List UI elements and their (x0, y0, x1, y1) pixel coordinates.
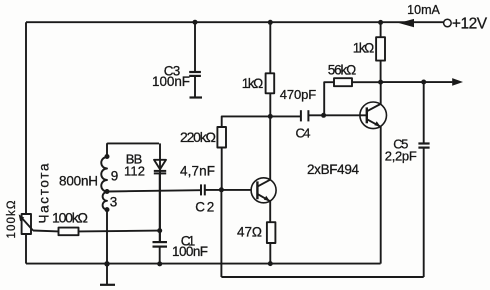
transistor Q2 BF494 (360, 102, 387, 129)
node coil tap (105, 189, 110, 194)
wire coil top to varicap (107, 143, 159, 156)
node output C5 (421, 80, 426, 85)
svg-text:C2: C2 (195, 200, 214, 215)
inductor 800nH tapped coil (101, 157, 107, 192)
resistor 1k left (Q1 collector load) (269, 22, 271, 73)
arrow output (452, 78, 463, 86)
node Q1 collector C4 (268, 114, 273, 119)
node Q1 base C2 220k feedback (219, 187, 224, 192)
svg-text:56kΩ: 56kΩ (328, 62, 357, 77)
wire C4 to Q2 base (308, 114, 366, 116)
svg-text:3: 3 (110, 195, 118, 210)
node 47R bottom (268, 261, 273, 266)
node varicap bias C1 (157, 228, 162, 233)
potentiometer 100k (Частота) body (22, 214, 31, 234)
node ground rail coil (104, 261, 109, 266)
node supply 1k right (378, 20, 383, 25)
wire +12V top supply rail (26, 21, 443, 23)
wire feedback drop from Q1 base node (220, 190, 222, 277)
svg-text:470pF: 470pF (280, 87, 317, 102)
resistor 47R (Q1 emitter) (267, 222, 276, 243)
svg-text:100nF: 100nF (172, 244, 208, 259)
svg-text:+12V: +12V (452, 16, 488, 33)
svg-text:100kΩ: 100kΩ (6, 200, 18, 238)
resistor 100k bias (59, 228, 79, 236)
svg-text:1kΩ: 1kΩ (242, 76, 264, 91)
ground (106, 264, 108, 285)
svg-text:10mA: 10mA (407, 3, 440, 17)
wire coil bottom to ground rail (106, 210, 108, 264)
svg-text:112: 112 (124, 163, 145, 178)
svg-text:1kΩ: 1kΩ (353, 41, 375, 56)
svg-text:220kΩ: 220kΩ (180, 129, 216, 145)
svg-text:9: 9 (111, 169, 119, 184)
wire feedback rail up to C5 (423, 148, 425, 277)
wire C2 to Q1 base (205, 189, 252, 191)
node supply C3 (193, 20, 198, 25)
wire left rail from supply to potentiometer (25, 22, 27, 214)
wire output line (381, 81, 453, 83)
svg-text:100kΩ: 100kΩ (52, 209, 88, 225)
transistor Q1 BF494 (251, 178, 276, 203)
node Q2 collector output (378, 80, 383, 85)
node coil top (105, 154, 110, 159)
svg-text:2xBF494: 2xBF494 (307, 162, 359, 177)
resistor 1k right (Q2 collector load) (380, 22, 382, 37)
wire inner bottom ground rail (26, 263, 381, 265)
wire 100k to C1 top node (79, 230, 160, 233)
potentiometer wiper arrow (21, 217, 34, 231)
capacitor C2 4,7nF (200, 184, 202, 195)
resistor 56k (Q2 base bias) (334, 78, 352, 86)
wire 220k bottom to Q1 base node (221, 148, 223, 190)
svg-text:4,7nF: 4,7nF (180, 164, 215, 179)
wire outer bottom feedback rail (221, 276, 423, 278)
resistor 220k with wire to Q1 collector node (222, 116, 271, 127)
svg-text:47Ω: 47Ω (237, 224, 262, 239)
wire wiper to resistor 100k (33, 230, 59, 233)
svg-text:800nH: 800nH (59, 174, 98, 189)
svg-text:2,2pF: 2,2pF (385, 149, 417, 164)
svg-text:C4: C4 (296, 126, 311, 141)
node coil bottom (105, 207, 110, 212)
capacitor C3 100nF decoupling with ground bar (194, 22, 196, 72)
wire coil tap to C2 (107, 190, 200, 191)
node supply 1k left (268, 20, 273, 25)
varicap diode BB112 (159, 143, 161, 241)
svg-text:100nF: 100nF (152, 74, 190, 89)
terminal +12V (444, 19, 452, 27)
capacitor C1 100nF (159, 173, 161, 241)
arrow 10mA current direction (399, 19, 414, 27)
node C1 bottom (157, 261, 162, 266)
node Q2 base C4 56k (321, 113, 326, 118)
wire pot bottom to ground rail (25, 234, 27, 264)
capacitor C4 470pF (270, 115, 301, 117)
capacitor C5 2,2pF (418, 142, 429, 144)
